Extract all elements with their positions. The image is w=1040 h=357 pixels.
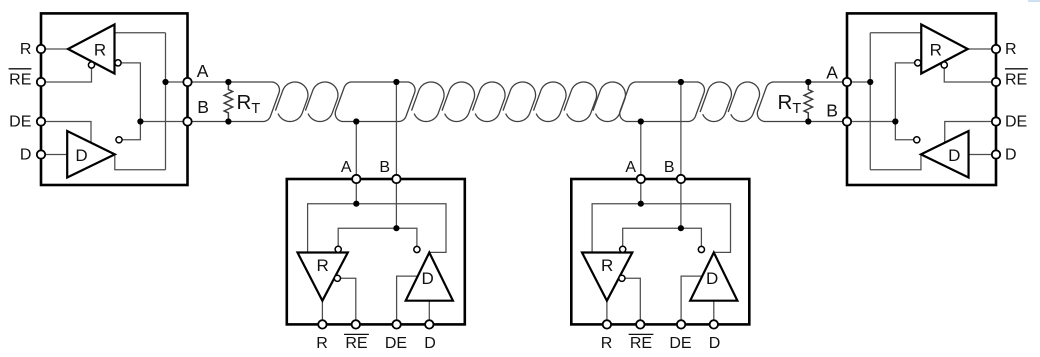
wire stub A to second middle transceiver — [640, 122, 642, 180]
wire U3 A pin to internal A junction — [640, 179, 642, 204]
svg-text:RE: RE — [9, 72, 31, 89]
bubble U3 driver inverting output — [698, 246, 704, 252]
wire U4 RE pin to receiver enable bubble — [944, 68, 996, 82]
pin circle U4 B — [843, 117, 851, 125]
pin circle U4 R — [992, 45, 1000, 53]
svg-text:D: D — [75, 146, 87, 165]
bubble U2 driver inverting output — [414, 246, 420, 252]
node dot U1 B junction — [137, 118, 143, 124]
pin circle U3 A — [637, 175, 645, 183]
svg-text:D: D — [421, 269, 433, 288]
wire U4 driver inverting output bubble to B net — [895, 122, 913, 140]
overline RE pin U2 — [344, 333, 369, 335]
svg-text:D: D — [20, 146, 32, 163]
wire U3 A net to receiver input — [592, 204, 730, 253]
twisted pair loop — [503, 82, 536, 122]
wire U1 driver output to A net — [115, 154, 166, 169]
svg-text:D: D — [709, 335, 721, 352]
driver D of U3 — [690, 253, 737, 301]
svg-text:D: D — [424, 335, 436, 352]
bubble U3 receiver inverting input — [620, 246, 626, 252]
svg-text:R: R — [316, 256, 328, 275]
node dot U3 A junction — [638, 201, 644, 207]
receiver R of U4 — [921, 25, 968, 74]
twisted pair loop — [275, 82, 308, 122]
svg-text:R: R — [601, 256, 613, 275]
svg-text:B: B — [826, 101, 838, 121]
wire U3 DE pin to driver enable — [681, 276, 702, 324]
twisted pair loop — [534, 82, 567, 122]
bubble U1 receiver B input — [115, 60, 121, 66]
background sliver top-right — [1028, 0, 1040, 2]
bubble U2 receiver inverting input — [335, 246, 341, 252]
pin circle U4 RE — [992, 78, 1000, 86]
pin circle U3 RE — [636, 320, 644, 328]
bubble U2 receiver enable — [334, 275, 340, 281]
wire U4 B node to B pin — [847, 121, 895, 123]
svg-text:R: R — [316, 335, 328, 352]
svg-text:DE: DE — [1005, 113, 1027, 130]
wire stub A to first middle transceiver — [355, 122, 357, 180]
svg-text:A: A — [197, 61, 209, 81]
twisted pair loop — [593, 82, 626, 122]
wire bus opening at first stub pair — [335, 82, 415, 122]
svg-text:A: A — [826, 63, 838, 83]
twisted pair loop — [564, 82, 597, 122]
twisted pair loop — [700, 82, 731, 122]
node dot RT right bottom — [805, 118, 811, 124]
bubble U4 driver inverting output — [914, 137, 920, 143]
wire U3 receiver output to R pin — [606, 301, 608, 325]
node dot U3 B junction — [678, 225, 684, 231]
node dot stub B on bus A-wire opening 2 — [678, 79, 684, 85]
twisted pair loop — [442, 82, 475, 122]
twisted pair loop — [473, 82, 506, 122]
transceiver U1 box outline — [41, 13, 188, 185]
pin circle U4 A — [843, 78, 851, 86]
wire bus left straight pair with twist entry — [188, 82, 280, 122]
MIDDLE-TRANSCEIVER-2 — [571, 159, 749, 352]
wire U3 B pin to internal B junction — [680, 179, 682, 228]
pin circle U4 D — [992, 150, 1000, 158]
bubble U4 receiver B input — [915, 60, 921, 66]
wire U2 B pin to internal B junction — [395, 179, 397, 228]
transceiver U2 box outline — [287, 179, 465, 324]
svg-text:A: A — [341, 159, 352, 176]
resistor RT left — [224, 82, 232, 122]
node dot U2 B junction — [393, 225, 399, 231]
resistor RT right — [804, 82, 812, 122]
svg-text:DE: DE — [669, 335, 691, 352]
pin circle U2 DE — [392, 320, 400, 328]
wire U2 DE pin to driver enable — [397, 276, 418, 324]
wire U2 D pin to driver input — [428, 301, 430, 325]
wire bus right straight pair with twist exit — [757, 82, 847, 122]
pin circle U1 R — [37, 45, 45, 53]
transceiver U4 box outline — [847, 13, 996, 185]
wire U2 A net to receiver input — [308, 204, 446, 253]
pin circle U1 RE — [37, 78, 45, 86]
wire U1 D pin to driver input — [41, 154, 67, 156]
wire U2 receiver enable bubble to RE pin — [341, 278, 356, 324]
wire U1 A net vertical — [165, 33, 167, 170]
twisted pair loop — [305, 82, 338, 122]
svg-text:A: A — [625, 159, 636, 176]
wire U1 receiver B-input bubble to B net — [121, 63, 140, 122]
overline RE pin U4 — [1005, 68, 1028, 70]
pin circle U2 A — [352, 175, 360, 183]
MIDDLE-TRANSCEIVER-1 — [287, 159, 465, 352]
node dot U2 A junction — [353, 201, 359, 207]
wire stub B to second middle transceiver — [680, 82, 682, 179]
bubble U1 driver inverting output — [116, 137, 122, 143]
LEFT-TRANSCEIVER — [9, 13, 192, 185]
wire U3 B net to receiver inverting input and driver inverting output — [623, 228, 702, 246]
wire U4 DE pin to driver enable — [945, 122, 996, 143]
svg-text:B: B — [379, 159, 390, 176]
wire U1 receiver A-input to A node — [115, 32, 166, 34]
node dot U4 B junction — [892, 118, 898, 124]
bubble U4 receiver enable — [941, 62, 947, 68]
wire U1 A node to A pin — [166, 81, 188, 83]
wire bus opening at second stub pair — [620, 82, 705, 122]
wire U3 D pin to driver input — [713, 301, 715, 325]
pin circle U3 R — [603, 320, 611, 328]
overline RE pin U1 — [9, 68, 32, 70]
pin circle U2 R — [318, 320, 326, 328]
pin circle U1 D — [37, 150, 45, 158]
node dot U1 A junction — [162, 79, 168, 85]
svg-text:DE: DE — [9, 113, 31, 130]
node dot stub A on bus B-wire opening 1 — [353, 118, 359, 124]
svg-text:RE: RE — [345, 335, 367, 352]
svg-text:D: D — [948, 146, 960, 165]
svg-text:D: D — [1005, 146, 1017, 163]
wire U4 receiver A-input to A node — [870, 32, 921, 34]
pin circle U3 DE — [677, 320, 685, 328]
pin circle U1 A — [183, 78, 191, 86]
bubble U3 receiver enable — [619, 275, 625, 281]
wire U2 A pin to internal A junction — [355, 179, 357, 204]
node dot stub A on bus B-wire opening 2 — [638, 118, 644, 124]
svg-text:B: B — [197, 97, 209, 117]
node dot stub B on bus A-wire opening 1 — [393, 79, 399, 85]
wire U1 R pin to receiver output — [41, 48, 68, 50]
receiver R of U3 — [582, 253, 632, 301]
receiver R of U1 — [68, 25, 115, 74]
svg-text:RE: RE — [630, 335, 652, 352]
wire U2 receiver output to R pin — [321, 301, 323, 325]
RIGHT-TRANSCEIVER — [843, 13, 1028, 185]
svg-text:B: B — [664, 159, 675, 176]
svg-text:D: D — [706, 269, 718, 288]
wire U4 R pin to receiver output — [968, 48, 996, 50]
svg-text:R: R — [601, 335, 613, 352]
node dot U4 A junction — [867, 79, 873, 85]
overline RE pin U3 — [629, 333, 654, 335]
wire U3 receiver enable bubble to RE pin — [625, 278, 640, 324]
BUS-SECTION — [188, 82, 848, 122]
wire U1 B node to B pin — [140, 121, 187, 123]
node dot RT left top — [225, 79, 231, 85]
svg-text:DE: DE — [385, 335, 407, 352]
twisted pair loop — [412, 82, 445, 122]
node dot RT right top — [805, 79, 811, 85]
receiver R of U2 — [298, 253, 348, 301]
pin circle U1 DE — [37, 117, 45, 125]
wire U4 receiver B-input bubble to B net — [895, 63, 914, 122]
pin circle U3 B — [677, 175, 685, 183]
driver D of U4 — [921, 131, 969, 178]
wire U4 A node to A pin — [847, 81, 870, 83]
node dot RT left bottom — [225, 118, 231, 124]
driver D of U1 — [67, 131, 115, 178]
bubble U1 receiver enable — [88, 62, 94, 68]
wire U2 B net to receiver inverting input and driver inverting output — [338, 228, 417, 246]
driver D of U2 — [406, 253, 453, 301]
pin circle U2 B — [392, 175, 400, 183]
svg-text:R: R — [930, 40, 942, 59]
wire U1 RE pin to receiver enable bubble — [41, 68, 92, 82]
svg-text:RE: RE — [1005, 72, 1027, 89]
pin circle U2 RE — [352, 320, 360, 328]
pin circle U2 D — [425, 320, 433, 328]
svg-text:R: R — [94, 40, 106, 59]
wire stub B to first middle transceiver — [395, 82, 397, 179]
pin circle U1 B — [183, 117, 191, 125]
svg-text:R: R — [20, 41, 32, 58]
wire U1 DE pin to driver enable — [41, 122, 91, 143]
wire U4 D pin to driver input — [969, 154, 996, 156]
svg-text:R: R — [1005, 41, 1017, 58]
wire U1 driver inverting output bubble to B net — [122, 122, 140, 140]
wire U4 A net vertical — [869, 33, 871, 170]
pin circle U3 D — [710, 320, 718, 328]
pin circle U4 DE — [992, 117, 1000, 125]
wire U4 driver output to A net — [870, 154, 921, 169]
transceiver U3 box outline — [571, 179, 749, 324]
twisted pair loop — [728, 82, 759, 122]
